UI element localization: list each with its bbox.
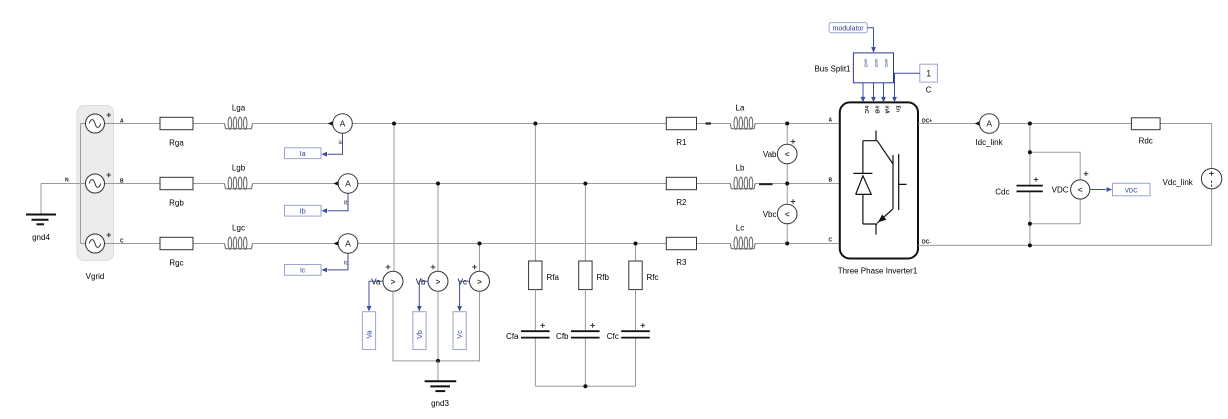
svg-text:DC-: DC- [922,240,931,246]
voltmeter VDC [1052,171,1090,199]
voltage source Va [371,265,403,292]
svg-text:A: A [340,119,346,129]
svg-text:inA: inA [884,106,890,114]
svg-text:Vc: Vc [457,330,464,339]
Vgrid source group background [77,106,114,261]
wire ground stem gnd4 [40,184,42,215]
ammeter Idc_link [975,114,1004,147]
svg-text:Idc_link: Idc_link [975,138,1003,147]
svg-text:B: B [120,179,124,185]
inductor Lgb [225,177,253,189]
wire Rfb to Cfb [584,290,586,331]
svg-text:C: C [829,238,833,244]
svg-text:Va: Va [367,330,374,338]
wire Bus Split1 outputs to inverter gates [862,83,864,102]
svg-text:<: < [785,150,790,159]
svg-text:Rfc: Rfc [647,273,659,282]
svg-text:La: La [736,104,745,113]
wire modulator to Bus Split1 [867,28,873,52]
svg-text:R1: R1 [676,138,687,147]
resistor Rgc [160,237,193,267]
goto tag Ia [285,148,322,159]
wire Cfb to bus [584,339,586,387]
wire Vc signal [460,281,470,310]
wire Vgrid left bus [80,124,82,244]
svg-text:>: > [391,278,396,287]
svg-text:Vc: Vc [458,277,467,286]
AC source Vgrid phase A [86,113,112,133]
svg-text:Rgc: Rgc [169,259,183,268]
svg-text:Vab: Vab [763,150,777,159]
inductor Lb [730,177,755,189]
AC source Vgrid phase C [86,233,112,253]
svg-text:ia: ia [339,140,344,146]
wire ic signal [328,253,349,270]
wire right vertical [1211,124,1213,169]
inductor Lc [730,237,755,249]
wire Cfc to bus [635,339,637,387]
svg-text:A: A [345,179,351,189]
resistor Rfc [629,261,659,290]
wire DC- rail [918,244,1212,246]
svg-text:Lc: Lc [736,224,744,233]
voltmeter Vab [763,139,797,164]
svg-text:Rfb: Rfb [597,273,610,282]
capacitor Cfb [556,323,600,341]
svg-text:Lb: Lb [736,164,745,173]
svg-text:C: C [120,239,124,245]
svg-text:C: C [926,86,932,95]
svg-text:modulator: modulator [833,25,865,32]
inverter U1 Three Phase Inverter1 [840,102,918,258]
wire Cdc branch [1029,124,1031,186]
ground gnd3 [425,381,457,391]
svg-text:out1: out1 [884,59,889,68]
goto tag Ic [285,265,322,276]
DC source Vdc_link [1163,169,1222,189]
wire dash phase A [706,122,712,124]
svg-text:Vbc: Vbc [763,210,777,219]
svg-text:1: 1 [926,69,931,79]
wire branch phase C to Rfc [635,244,637,262]
svg-text:A: A [120,119,124,125]
inverter internal IGBT and diode icon [853,131,906,235]
svg-text:Rga: Rga [169,139,184,148]
svg-text:inC: inC [863,106,869,114]
node junction [478,242,482,246]
wire branch phase A to Va [393,124,395,272]
svg-text:R2: R2 [676,198,687,207]
goto tag Ib [285,205,322,216]
svg-text:B: B [829,178,833,184]
wire filter bottom bus [535,385,635,387]
svg-text:A: A [986,119,992,129]
svg-text:Vb: Vb [417,330,424,339]
svg-text:<: < [1078,186,1083,195]
capacitor Cfa [506,323,550,341]
goto tag Vc [453,312,466,350]
wire Vab Vbc branch [786,124,788,244]
goto tag VDC [1113,183,1151,196]
resistor Rfa [529,261,560,290]
svg-text:Cfb: Cfb [556,332,569,341]
svg-text:Lgb: Lgb [232,164,246,173]
block Bus Split1 [814,53,893,83]
svg-text:Ib: Ib [300,208,306,215]
AC source Vgrid phase B [86,173,112,193]
svg-text:ib: ib [344,201,349,207]
svg-text:gnd4: gnd4 [32,233,50,242]
resistor R1 [666,117,696,147]
svg-text:Three Phase Inverter1: Three Phase Inverter1 [838,266,918,275]
voltmeter Vbc [763,199,797,224]
ammeter ia [328,114,352,146]
svg-text:Va: Va [371,277,381,286]
wire Rfc to Cfc [635,290,637,331]
resistor Rga [160,117,193,147]
tag modulator [829,23,867,33]
svg-text:VDC: VDC [1125,188,1138,194]
svg-text:Bus Split1: Bus Split1 [814,65,851,74]
wire Va Vb Vc ground bus [393,291,480,361]
wire branch phase A to Rfa [534,124,536,262]
inductor Lgc [225,237,253,249]
svg-text:Vdc_link: Vdc_link [1163,178,1194,187]
svg-text:Rdc: Rdc [1139,136,1153,145]
svg-text:>: > [477,278,482,287]
svg-text:gnd3: gnd3 [431,399,449,408]
wire phase C rail [105,243,161,245]
svg-text:R3: R3 [676,258,687,267]
resistor R2 [666,177,696,207]
wire Cfa to bus [534,339,536,387]
goto tag Va [362,312,375,350]
wire phase A rail [105,123,161,125]
wire Vb signal [419,281,428,310]
wire VDC voltmeter loop [1030,152,1080,180]
svg-text:Cdc: Cdc [995,187,1009,196]
goto tag Vb [413,312,426,350]
wire Rfa to Cfa [534,290,536,331]
resistor R3 [666,237,696,267]
resistor Rdc [1131,118,1160,146]
svg-text:Rfa: Rfa [547,273,560,282]
svg-text:Vb: Vb [416,277,426,286]
ground gnd4 [26,215,56,225]
wire neutral N [41,183,81,185]
capacitor Cfc [607,323,650,341]
svg-text:VDC: VDC [1052,186,1069,195]
wire Va signal [369,281,383,310]
ammeter ib [333,174,357,207]
svg-text:<: < [785,210,790,219]
svg-text:>: > [436,278,441,287]
svg-text:Lga: Lga [232,104,246,113]
svg-text:Ic: Ic [300,268,306,275]
inductor La [730,117,755,129]
ammeter ic [333,234,357,267]
svg-text:out2: out2 [874,59,879,68]
voltage source Vb [416,265,448,292]
capacitor Cdc [995,177,1043,196]
voltage source Vc [458,265,490,292]
wire DC+ rail [918,123,1212,125]
svg-text:Cfc: Cfc [607,332,619,341]
svg-text:A: A [829,118,833,124]
svg-text:Rgb: Rgb [169,199,184,208]
node junction [392,122,396,126]
wire branch phase B to Vb [437,184,439,272]
svg-text:Cfa: Cfa [506,332,519,341]
svg-text:N: N [65,178,69,184]
constant C value 1 [920,64,938,94]
inductor Lga [225,117,253,129]
wire ib signal [328,193,349,210]
svg-text:Vgrid: Vgrid [86,272,105,281]
wire VDC signal [1090,189,1106,191]
wire dash phase B [759,183,773,185]
wire constant C to inverter En [895,73,920,101]
svg-text:Lgc: Lgc [232,224,245,233]
inverter top port labels [863,106,901,114]
svg-text:En: En [895,106,901,112]
svg-text:out3: out3 [864,59,869,68]
svg-text:inB: inB [874,106,880,114]
svg-text:Ia: Ia [300,151,306,158]
wire branch phase C to Vc [479,244,481,272]
resistor Rfb [579,261,610,290]
node junction [436,182,440,186]
wire branch phase B to Rfb [584,184,586,262]
wire phase B rail [105,183,161,185]
resistor Rgb [160,177,193,207]
wire ia signal [328,133,343,154]
svg-text:A: A [345,239,351,249]
